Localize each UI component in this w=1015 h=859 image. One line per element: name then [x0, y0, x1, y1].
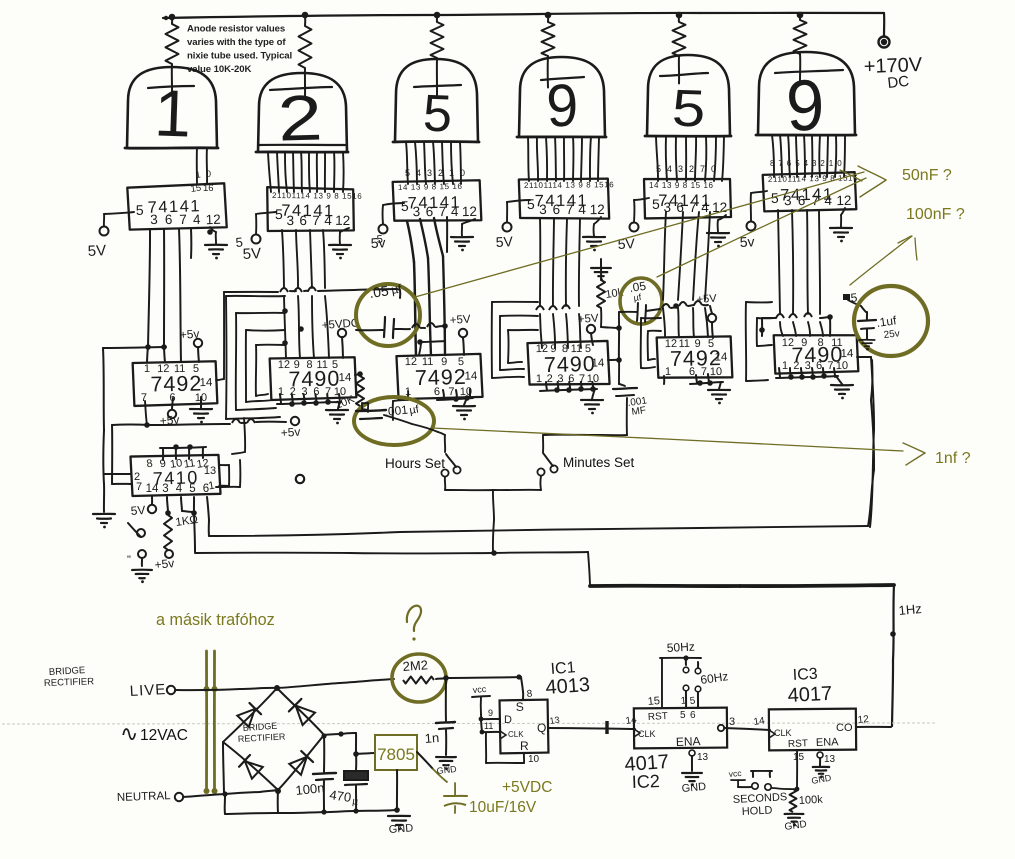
- wire U5 pin12 to ground: [718, 215, 726, 220]
- wire U6 pin12 to ground: [841, 208, 845, 215]
- bridge rectifier outline: [223, 688, 277, 742]
- terminal +5V X5: [708, 314, 716, 322]
- circle annotation .05 seconds: [620, 278, 662, 324]
- svg-text:5: 5: [235, 234, 244, 250]
- svg-text:7: 7: [141, 392, 147, 404]
- circle annotation .1uf 25v: [854, 286, 928, 356]
- wire IC3 ena gnd: [819, 758, 821, 766]
- olive tap line 2: [213, 651, 216, 791]
- terminal 5V driver U2: [252, 235, 261, 244]
- svg-text:1: 1: [536, 373, 542, 385]
- svg-text:.1uf: .1uf: [875, 313, 897, 330]
- wire U5 pin5 to 5V: [634, 198, 649, 200]
- junction dot bus R2: [302, 12, 309, 19]
- junction dots X2 wires: [282, 308, 288, 314]
- counter 7490 X4 box: [527, 341, 609, 386]
- svg-text:15: 15: [647, 695, 660, 708]
- wire X6 down right side: [871, 357, 874, 430]
- svg-text:13: 13: [204, 465, 216, 477]
- svg-text:14: 14: [338, 372, 352, 384]
- ground X4: [581, 399, 603, 401]
- wire left rail to X7 pin2: [104, 473, 131, 475]
- wire +5v rail branch to X7: [112, 424, 147, 426]
- wire nested loop X2 3: [246, 329, 285, 332]
- capacitor .001uf hours plates: [356, 410, 386, 411]
- svg-text:6: 6: [689, 366, 695, 378]
- wire U2 pin12 to ground: [340, 228, 349, 232]
- wire X7 pin5 to set rail: [194, 513, 195, 552]
- wire right riser: [868, 470, 874, 526]
- nixie tube V6 anode bar: [775, 70, 843, 73]
- svg-text:DC: DC: [887, 73, 910, 92]
- svg-text:1: 1: [829, 159, 834, 168]
- svg-text:7: 7: [136, 481, 142, 493]
- svg-text:12: 12: [335, 213, 350, 228]
- nixie tube V2 anode lead: [304, 68, 306, 98]
- arrow 100nF: [850, 236, 912, 285]
- capacitor .001 seconds: [613, 388, 637, 389]
- wire live to bridge: [175, 689, 240, 690]
- ground IC3 ena: [813, 766, 829, 768]
- junction dot bus R4: [545, 12, 552, 19]
- wire X2 pin14 to 10K: [355, 374, 360, 375]
- svg-text:5: 5: [527, 196, 535, 212]
- svg-text:CLK: CLK: [638, 729, 656, 739]
- nixie tube V2 envelope: [258, 73, 347, 152]
- wires U3 to X3 verticals: [407, 221, 414, 262]
- wire cap hours to switch: [384, 415, 412, 424]
- clock wedge 4013: [500, 731, 506, 739]
- svg-text:CLK: CLK: [774, 728, 792, 738]
- terminal +5VDC above X2: [338, 329, 346, 337]
- wire 1Hz vertical: [893, 585, 894, 660]
- svg-text:100k: 100k: [799, 794, 824, 807]
- svg-text:7: 7: [448, 386, 454, 398]
- wire X7 top jumper: [160, 447, 206, 448]
- svg-text:5: 5: [136, 202, 145, 218]
- svg-text:5V: 5V: [87, 242, 106, 260]
- svg-text:1: 1: [449, 168, 454, 178]
- svg-text:+5v: +5v: [154, 556, 175, 572]
- terminal NEUTRAL: [175, 793, 183, 801]
- svg-text:12: 12: [836, 193, 851, 208]
- terminal 5V driver U6: [747, 222, 756, 231]
- wire 7805 out: [417, 752, 433, 769]
- wire +5v rail with hops: [147, 424, 230, 425]
- wire X7 pin13 loop: [219, 464, 229, 466]
- ground 1n: [436, 756, 456, 758]
- wire U2 pin5 to 5V: [256, 212, 276, 214]
- svg-text:3: 3: [539, 202, 547, 217]
- ground left switch: [132, 569, 152, 572]
- ground 10k top: [591, 267, 611, 269]
- wire pad to cap .1uf: [848, 300, 861, 306]
- svg-text:5: 5: [671, 78, 707, 137]
- wire X7 pin14 5V: [151, 496, 153, 504]
- wires tube V3 cathode leads: [406, 142, 408, 184]
- wires U2 to X2 verticals: [282, 230, 284, 288]
- ground U4: [583, 236, 605, 238]
- terminal +170V DC supply: [879, 37, 890, 48]
- svg-text:0: 0: [460, 168, 465, 178]
- arrowhead 50nF: [858, 166, 886, 180]
- svg-text:5: 5: [193, 363, 199, 375]
- wire neutral to bottom vertex: [225, 792, 260, 794]
- svg-text:4: 4: [578, 202, 586, 217]
- svg-text:5: 5: [680, 710, 686, 721]
- svg-text:7: 7: [439, 204, 447, 219]
- wire IC2 to IC3: [724, 728, 770, 730]
- svg-text:5: 5: [656, 164, 661, 174]
- svg-text:9: 9: [694, 338, 700, 350]
- wires tube V4 cathode leads: [528, 137, 529, 181]
- wire nested loop X4 2: [500, 315, 538, 317]
- svg-text:7: 7: [179, 212, 187, 227]
- resistor 100k: [790, 789, 797, 812]
- wire left rail crossing: [103, 347, 166, 348]
- ground 100k: [785, 813, 804, 815]
- svg-text:5v: 5v: [739, 233, 755, 250]
- wire bridge plus out: [324, 734, 341, 735]
- svg-text:Hours Set: Hours Set: [385, 456, 445, 471]
- svg-text:2: 2: [438, 168, 443, 178]
- pad 5 anode cap: [843, 294, 850, 300]
- svg-text:4: 4: [667, 164, 672, 174]
- svg-text:LIVE: LIVE: [129, 681, 166, 700]
- wire U1 pin5 to 5V: [104, 212, 134, 214]
- svg-text:4013: 4013: [545, 674, 591, 699]
- junction dot bus R6: [797, 12, 804, 19]
- svg-text:6: 6: [690, 710, 696, 721]
- terminal 5V X7: [148, 505, 156, 513]
- svg-text:5: 5: [405, 168, 410, 178]
- svg-text:14: 14: [625, 714, 638, 727]
- wire after 2M2: [436, 678, 446, 679]
- terminal +5v below X1: [168, 410, 176, 418]
- wire nested loop X4 1: [492, 301, 538, 303]
- junction dots X1 top: [145, 344, 151, 350]
- resistor 10K X2: [356, 376, 364, 406]
- svg-text:6: 6: [816, 360, 822, 372]
- lone terminal: [296, 475, 304, 483]
- wire bridge bottom stub: [277, 790, 279, 813]
- junction dot X6 right: [827, 314, 833, 320]
- wire X3 pin1 hook: [407, 391, 409, 400]
- wire X1 pin6 to +5v: [172, 398, 173, 409]
- nixie tube V6 anode lead: [799, 54, 801, 81]
- svg-text:+5V: +5V: [696, 293, 717, 306]
- svg-text:12: 12: [782, 337, 794, 349]
- wire U6 pin5 to 5V: [751, 191, 767, 193]
- svg-text:6: 6: [798, 193, 806, 208]
- terminal LIVE: [167, 686, 175, 694]
- nixie tube V6 digit 9: [785, 64, 826, 146]
- counter 7492 X5 box: [657, 336, 733, 378]
- svg-text:12: 12: [205, 212, 221, 228]
- capacitor 10uF olive: [454, 783, 456, 795]
- wire x619 to cap .001: [618, 360, 620, 384]
- wire cap2 right hops: [646, 309, 660, 311]
- wire into 4013 S: [521, 677, 523, 692]
- nixie tube V4 digit 9: [545, 72, 579, 140]
- svg-text:a másik trafóhoz: a másik trafóhoz: [156, 611, 275, 629]
- svg-text:3: 3: [678, 164, 683, 174]
- svg-text:5V: 5V: [495, 233, 514, 250]
- wire X7 pin3 down: [167, 497, 168, 512]
- svg-text:3: 3: [784, 193, 792, 208]
- svg-text:GND: GND: [436, 764, 457, 776]
- wire cap2 left: [619, 311, 637, 313]
- svg-text:vcc: vcc: [472, 684, 487, 695]
- diode bridge D1: [237, 709, 255, 727]
- svg-text:5V: 5V: [130, 503, 146, 518]
- svg-text:GND: GND: [388, 822, 413, 836]
- svg-text:5: 5: [708, 338, 714, 350]
- svg-text:3: 3: [150, 212, 158, 227]
- capacitor .05 seconds plates: [637, 303, 638, 321]
- svg-text:7: 7: [827, 360, 833, 372]
- clock wedge IC2: [634, 729, 640, 737]
- nixie tube V6 envelope: [758, 52, 855, 135]
- svg-text:R: R: [520, 739, 529, 753]
- svg-text:14: 14: [146, 483, 159, 495]
- svg-text:3: 3: [663, 200, 671, 215]
- svg-text:50nF ?: 50nF ?: [902, 167, 952, 184]
- wire X4 bottom rail: [540, 389, 597, 391]
- wire rail to pin12: [444, 326, 446, 341]
- svg-text:100n: 100n: [295, 780, 325, 798]
- switch minutes set: [543, 453, 553, 466]
- wire nested loop X4 3: [508, 329, 538, 331]
- wire U3 pin5 to 5V: [383, 203, 404, 205]
- svg-text:10: 10: [710, 366, 722, 378]
- svg-text:13: 13: [549, 715, 560, 726]
- wires U4 to X4 verticals: [539, 219, 541, 306]
- wire Q to IC2: [548, 728, 635, 729]
- wire X6 pin14 right: [857, 356, 871, 358]
- svg-text:4: 4: [804, 159, 809, 168]
- ground X1: [190, 408, 212, 410]
- nixie tube V1 anode lead: [171, 64, 173, 96]
- svg-text:12: 12: [157, 363, 169, 375]
- wire X7 pin6 down: [207, 497, 209, 520]
- capacitor .1uf plates: [858, 320, 876, 321]
- diode bridge D4: [289, 757, 307, 775]
- op 74141 U4 box: [519, 179, 609, 220]
- terminal +5V X4: [587, 325, 595, 333]
- nixie tube V5 anode lead: [678, 56, 680, 84]
- wire switch common: [444, 477, 446, 490]
- svg-text:7: 7: [579, 373, 585, 385]
- svg-text:13: 13: [824, 754, 836, 765]
- wires X2 bottom stubs: [280, 394, 281, 403]
- svg-text:IC2: IC2: [631, 771, 660, 792]
- svg-text:5: 5: [401, 198, 409, 214]
- svg-text:+5VDC: +5VDC: [502, 779, 552, 796]
- svg-text:4: 4: [324, 213, 332, 228]
- nixie tube V3 anode bar: [414, 85, 461, 87]
- wire nested loop X6: [746, 301, 772, 304]
- wire thick rail to 1Hz: [590, 584, 740, 588]
- svg-text:.05: .05: [368, 282, 390, 301]
- svg-text:7: 7: [778, 159, 783, 168]
- wire 10k down to rail: [600, 308, 602, 327]
- wire X1 pin10 ground: [200, 397, 202, 408]
- nixie tube V3 anode lead: [436, 58, 438, 95]
- wires X6 bottom stubs: [779, 368, 780, 377]
- wires X4 bottom stubs: [546, 382, 547, 390]
- resistor R2 anode: [304, 15, 306, 26]
- svg-text:12: 12: [278, 359, 290, 371]
- svg-text:6: 6: [299, 213, 307, 228]
- wire plus to 7805: [356, 753, 375, 754]
- svg-text:14 13 9 8 15 16: 14 13 9 8 15 16: [398, 182, 463, 192]
- resistor 10k X4: [600, 259, 602, 280]
- wires X7 pins 4 5 down: [181, 497, 182, 511]
- vcc bar seconds: [731, 779, 745, 781]
- wire nested loop X5 1: [641, 317, 661, 319]
- svg-text:10: 10: [836, 360, 848, 372]
- svg-text:5V: 5V: [242, 245, 261, 263]
- circle annotation 2M2: [392, 654, 446, 702]
- wire RST riser: [661, 658, 663, 708]
- svg-text:12: 12: [857, 714, 869, 726]
- svg-text:3: 3: [413, 204, 421, 219]
- svg-text:Anode resistor values: Anode resistor values: [187, 24, 285, 35]
- wires U1 to X1 verticals: [148, 229, 150, 347]
- wire X3 bottom rail: [437, 398, 473, 400]
- svg-text:6: 6: [787, 159, 792, 168]
- svg-text:14: 14: [840, 348, 854, 360]
- svg-text:9: 9: [441, 356, 447, 368]
- ground X2: [326, 409, 348, 411]
- svg-text:IC3: IC3: [792, 666, 818, 684]
- svg-text:4017: 4017: [787, 683, 833, 707]
- svg-text:HOLD: HOLD: [742, 804, 773, 818]
- svg-text:vcc: vcc: [728, 768, 742, 779]
- ground U5: [707, 232, 729, 234]
- wire top anode bus: [163, 15, 430, 18]
- junction dot bus R3: [434, 12, 441, 19]
- capacitor 1n: [445, 678, 447, 721]
- arrowhead 1nf: [903, 443, 925, 453]
- svg-text:11: 11: [174, 363, 186, 375]
- capacitor .05uf plates: [384, 317, 385, 337]
- wires X3 bottom stubs: [443, 390, 444, 399]
- svg-text:D: D: [504, 714, 512, 726]
- terminal 5V driver U1: [100, 227, 109, 236]
- terminal 5V driver U3: [379, 225, 388, 234]
- svg-text:3: 3: [286, 213, 294, 228]
- svg-text:8: 8: [306, 359, 312, 371]
- ground X3: [453, 405, 475, 407]
- svg-text:12: 12: [462, 204, 477, 219]
- wire neutral rail down: [224, 794, 226, 814]
- fold line faint: [2, 723, 935, 724]
- svg-text:7: 7: [701, 366, 707, 378]
- svg-text:8: 8: [817, 337, 823, 349]
- wire nested loop X2 1: [226, 295, 285, 297]
- svg-text:NEUTRAL: NEUTRAL: [117, 790, 172, 804]
- svg-text:4: 4: [193, 212, 202, 227]
- svg-text:5: 5: [652, 196, 660, 212]
- svg-text:21101114 13 9 8 1516: 21101114 13 9 8 1516: [272, 191, 362, 201]
- nixie tube V4 anode lead: [547, 56, 549, 88]
- op 74141 U5 box: [644, 179, 731, 218]
- svg-text:3: 3: [812, 159, 817, 168]
- svg-text:6: 6: [426, 204, 434, 219]
- hop bumps X6 wires: [776, 314, 784, 318]
- ground IC2: [682, 772, 702, 774]
- ground X5: [708, 389, 730, 391]
- svg-text:12: 12: [590, 202, 605, 217]
- svg-text:5: 5: [189, 483, 195, 495]
- svg-text:14: 14: [591, 357, 605, 369]
- wire vcc to D CLK: [480, 714, 482, 719]
- wire +170V drop: [883, 13, 885, 36]
- resistor 2M2: [403, 677, 434, 684]
- op 74141 U3 box: [393, 180, 482, 222]
- wire IC2 ena gnd: [689, 750, 695, 756]
- counter 7492 X3 box: [396, 354, 482, 399]
- svg-text:14: 14: [714, 351, 728, 363]
- nixie tube V4 envelope: [519, 57, 605, 137]
- svg-text:11: 11: [678, 338, 690, 350]
- ground left rail: [93, 513, 115, 515]
- question mark olive: [407, 606, 421, 631]
- svg-text:Minutes Set: Minutes Set: [563, 455, 635, 470]
- svg-text:9: 9: [801, 337, 807, 349]
- op 74141 U1 box: [127, 183, 226, 230]
- counter 7492 X1 box: [133, 361, 218, 406]
- nixie tube V5 anode bar: [660, 73, 708, 76]
- svg-text:3: 3: [805, 360, 811, 372]
- svg-text:10: 10: [528, 754, 540, 765]
- ground U2: [329, 244, 351, 246]
- svg-text:9: 9: [488, 708, 493, 718]
- svg-text:7: 7: [312, 213, 320, 228]
- svg-text:12VAC: 12VAC: [140, 727, 188, 744]
- nixie tube V1 envelope: [127, 67, 217, 148]
- junction dot bus R5: [676, 12, 683, 19]
- svg-text:": ": [127, 554, 131, 566]
- svg-text:15: 15: [190, 183, 202, 195]
- ground .1uf: [859, 339, 874, 341]
- counter 4017 X8 box: [634, 708, 727, 749]
- svg-text:14: 14: [753, 715, 766, 728]
- svg-text:ENA: ENA: [676, 734, 701, 749]
- nixie tube V5 digit 5: [671, 78, 707, 137]
- wires U5 to X5 verticals: [663, 212, 666, 300]
- svg-text:21101114 13 9 8 1516: 21101114 13 9 8 1516: [524, 180, 614, 190]
- svg-text:∿: ∿: [120, 721, 138, 746]
- svg-text:6: 6: [553, 202, 561, 217]
- resistor 1K ohm: [164, 515, 172, 550]
- svg-text:+5V: +5V: [449, 314, 471, 327]
- resistor R3 anode: [436, 15, 438, 22]
- svg-text:CLK: CLK: [508, 730, 524, 739]
- wire neutral in: [183, 794, 225, 797]
- svg-text:7: 7: [566, 202, 574, 217]
- circle annotation .001uf hours: [354, 397, 434, 445]
- annotation line 1nf: [432, 428, 903, 451]
- wire X4 pin14 to x619: [608, 359, 619, 361]
- svg-text:12: 12: [665, 338, 677, 350]
- wire U4 pin5 to 5V: [507, 200, 530, 202]
- svg-text:1Hz: 1Hz: [898, 601, 922, 618]
- wires U6 to X6 verticals: [778, 210, 780, 314]
- svg-text:0: 0: [711, 164, 716, 174]
